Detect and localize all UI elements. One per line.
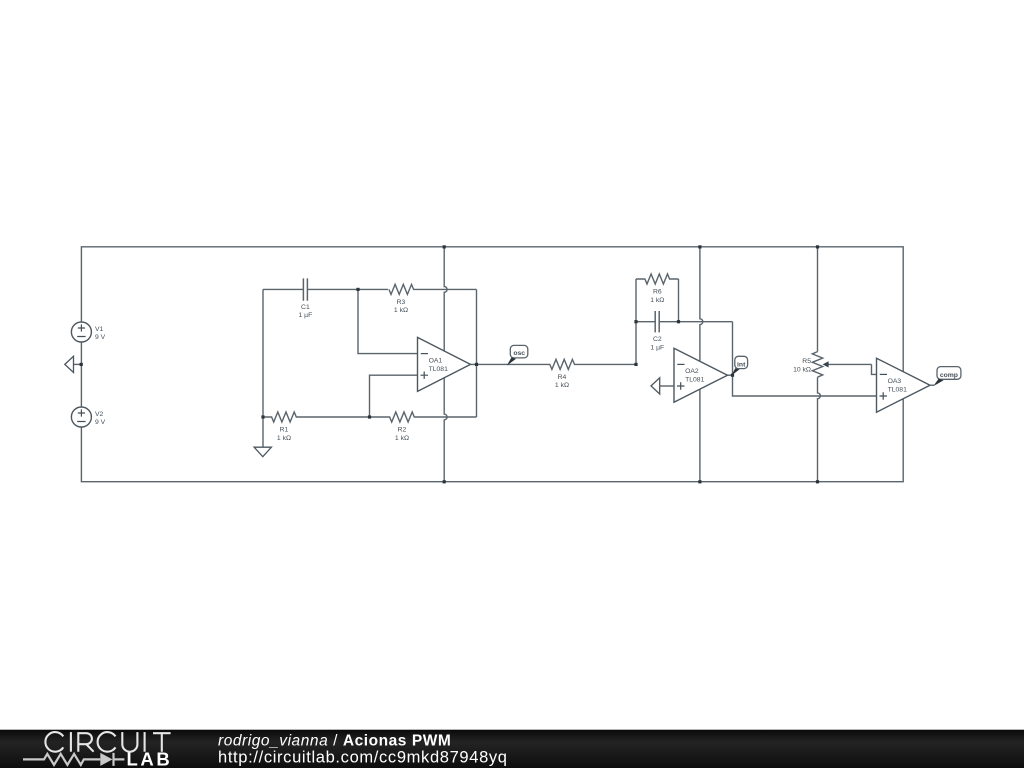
svg-text:1 kΩ: 1 kΩ (650, 297, 664, 304)
svg-text:OA2: OA2 (685, 368, 699, 375)
svg-text:int: int (737, 361, 746, 368)
svg-text:TL081: TL081 (429, 366, 448, 373)
svg-text:R6: R6 (653, 289, 662, 296)
svg-text:comp: comp (940, 372, 958, 379)
svg-text:R5: R5 (802, 358, 811, 365)
svg-text:10 kΩ: 10 kΩ (793, 367, 811, 374)
svg-text:R2: R2 (398, 427, 407, 434)
svg-text:1 kΩ: 1 kΩ (555, 382, 569, 389)
svg-text:OA1: OA1 (429, 357, 443, 364)
svg-text:9 V: 9 V (95, 334, 106, 341)
svg-text:rodrigo_vianna / Acionas PWM: rodrigo_vianna / Acionas PWM (218, 733, 451, 750)
svg-text:OA3: OA3 (888, 378, 902, 385)
svg-text:TL081: TL081 (685, 377, 704, 384)
svg-text:http://circuitlab.com/cc9mkd87: http://circuitlab.com/cc9mkd87948yq (218, 749, 508, 767)
svg-text:1 kΩ: 1 kΩ (394, 307, 408, 314)
svg-text:9 V: 9 V (95, 419, 106, 426)
svg-text:C2: C2 (653, 336, 662, 343)
svg-text:TL081: TL081 (888, 387, 907, 394)
svg-text:R3: R3 (397, 299, 406, 306)
svg-text:C1: C1 (301, 304, 310, 311)
svg-text:1 µF: 1 µF (650, 344, 664, 351)
svg-text:V2: V2 (95, 411, 104, 418)
svg-text:V1: V1 (95, 326, 104, 333)
svg-text:1 kΩ: 1 kΩ (395, 435, 409, 442)
svg-text:LAB: LAB (127, 749, 173, 769)
svg-text:1 µF: 1 µF (299, 312, 313, 319)
svg-text:osc: osc (513, 350, 525, 357)
svg-text:R4: R4 (558, 374, 567, 381)
svg-text:R1: R1 (280, 427, 289, 434)
svg-text:1 kΩ: 1 kΩ (277, 435, 291, 442)
